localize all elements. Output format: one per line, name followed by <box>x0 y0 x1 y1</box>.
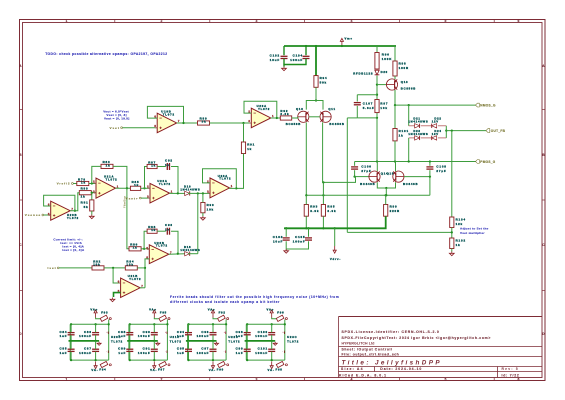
wire U20A feedback <box>244 101 277 118</box>
wire filter1 left <box>69 324 71 360</box>
junction rail B R93 <box>305 194 307 196</box>
svg-text:C95: C95 <box>177 346 185 350</box>
svg-text:KiCad E.D.A. 8.0.1: KiCad E.D.A. 8.0.1 <box>339 373 387 377</box>
svg-text:10k: 10k <box>93 263 100 267</box>
svg-text:10uF: 10uF <box>273 240 283 244</box>
wire filter4 VA+ drop <box>272 318 276 319</box>
ground under R102 <box>449 252 454 256</box>
op-amp U20B <box>48 201 74 220</box>
wire filter2 left <box>128 324 130 360</box>
resistor R86 <box>129 243 141 251</box>
svg-text:3.9k: 3.9k <box>327 209 336 213</box>
svg-text:C96: C96 <box>201 330 209 334</box>
svg-text:C84: C84 <box>59 330 67 334</box>
junction PMOS row b <box>394 160 396 162</box>
resistor R93 <box>304 205 319 217</box>
wire C108 top lead <box>429 162 431 166</box>
resistor R83 <box>101 160 113 168</box>
wire R104 to R102 <box>451 228 453 239</box>
svg-text:Sheet: /Output Control/: Sheet: /Output Control/ <box>342 347 393 351</box>
wire filter2 c1 leads <box>129 324 131 332</box>
wire U20B out up <box>70 193 79 211</box>
svg-text:Id: 7/22: Id: 7/22 <box>502 373 520 377</box>
op-amp U21B <box>118 274 144 297</box>
svg-text:VA-: VA- <box>268 368 275 372</box>
svg-text:Q15: Q15 <box>387 172 395 176</box>
wire D20 node to PMOS row <box>376 118 378 162</box>
svg-text:NMOS_G: NMOS_G <box>480 103 496 107</box>
label F97 <box>158 368 165 372</box>
svg-text:R94: R94 <box>320 76 328 80</box>
power flag VA+ filter2 <box>149 308 157 318</box>
svg-text:Q11: Q11 <box>328 107 335 111</box>
svg-text:-: - <box>106 350 107 353</box>
wire filter2 VA+ drop <box>154 318 158 319</box>
capacitor C105 <box>293 235 312 243</box>
svg-text:3: 3 <box>256 19 259 23</box>
lead diode row1 <box>409 125 447 127</box>
svg-text:Iset: Iset <box>48 266 57 270</box>
wire Vset to U19B <box>123 127 158 129</box>
svg-text:1k: 1k <box>134 183 139 187</box>
hierarchical label OUT_FB <box>486 129 506 133</box>
svg-text:C86: C86 <box>84 330 92 334</box>
junction rail Vdrv <box>334 227 336 229</box>
power flag Vm+ <box>340 37 353 47</box>
svg-text:3: 3 <box>147 194 149 198</box>
label U20B <box>67 213 79 220</box>
svg-text:C88: C88 <box>118 330 126 334</box>
ferrite bead F97 <box>159 361 170 367</box>
wire U21A out <box>116 187 131 189</box>
svg-text:U23C: U23C <box>287 335 297 339</box>
junction filter4 m1 <box>246 340 248 342</box>
svg-text:2.2k: 2.2k <box>280 112 289 116</box>
svg-text:C103: C103 <box>273 235 283 239</box>
resistor R89 <box>198 117 210 126</box>
wire R90 top <box>202 193 204 202</box>
svg-text:F95: F95 <box>160 310 167 314</box>
svg-text:1uF: 1uF <box>60 351 68 355</box>
wire C102 bottom lead <box>283 59 285 65</box>
svg-text:A: A <box>542 64 545 68</box>
junction R90 node <box>202 192 204 194</box>
wire R81 gnd <box>91 211 93 215</box>
global label Iset <box>48 266 60 270</box>
wire U22B in+ path <box>145 259 149 288</box>
wire C93 to out <box>171 231 178 254</box>
svg-text:TL072: TL072 <box>228 339 240 343</box>
wire R91 down to U23A out <box>236 154 243 189</box>
global label Vset+ <box>126 196 142 200</box>
svg-text:SPDX-FileCopyrightText: 2024 I: SPDX-FileCopyrightText: 2024 Igor Brkic … <box>342 336 492 340</box>
svg-text:Vset+: Vset+ <box>126 196 139 200</box>
resistor R96 <box>375 53 392 70</box>
wire C107 top bridge <box>357 94 377 96</box>
capacitor C100 <box>255 330 275 338</box>
wire C105 top lead <box>308 228 310 237</box>
wire filter1 c3 leads <box>70 341 72 349</box>
wire filter2 mid <box>127 340 158 342</box>
wire diode node down <box>197 193 199 253</box>
wire filter3 bead down <box>225 320 227 325</box>
svg-text:PMOS_G: PMOS_G <box>480 160 495 164</box>
wire R84 right <box>137 267 145 269</box>
junction diode left PMOS <box>408 160 410 162</box>
zener diode D20 <box>375 70 380 75</box>
wire filter4 c3 leads <box>246 341 248 349</box>
junction filter2 t2 <box>153 323 155 325</box>
label D22 <box>432 117 442 124</box>
junction U22B out <box>177 253 179 255</box>
wire filter3 left <box>187 324 189 360</box>
junction rail R95 <box>322 227 324 229</box>
svg-text:C102: C102 <box>270 54 280 58</box>
wire filter3 c1 bot <box>188 335 190 341</box>
wire filter1 c2 bot <box>95 335 97 341</box>
junction filter2 b1 <box>129 359 131 361</box>
svg-text:TL072: TL072 <box>106 177 118 181</box>
wire C107 bottom lead <box>356 106 358 118</box>
wire filter4 bead down <box>284 320 286 325</box>
junction Q13 base tap <box>376 83 378 85</box>
wire filter3 mid <box>186 340 217 342</box>
global label Vset <box>110 126 123 130</box>
junction R104 R102 <box>451 231 453 233</box>
lead diode row2 <box>409 137 447 139</box>
op-amp U21A <box>93 174 119 198</box>
svg-text:TL072: TL072 <box>156 244 168 248</box>
power flag VA+ filter4 <box>267 308 275 318</box>
wire Vref2 to R79 <box>73 183 77 185</box>
svg-text:6: 6 <box>518 19 521 23</box>
svg-text:F93: F93 <box>101 310 108 314</box>
power flag VA- filter2 <box>150 362 157 373</box>
wire filter2 c4 bot <box>153 352 155 361</box>
wire filter2 c3 bot <box>129 352 131 361</box>
svg-text:F97: F97 <box>158 368 165 372</box>
global label Vref/2 <box>57 182 74 186</box>
wire rail to R98 <box>394 46 396 61</box>
svg-text:C89: C89 <box>118 346 126 350</box>
svg-text:1: 1 <box>66 377 69 381</box>
wire C102 top lead <box>283 46 285 55</box>
junction filter3 t2 <box>212 323 214 325</box>
power flag VA- filter4 <box>268 362 275 373</box>
wire NMOS row <box>395 104 476 106</box>
junction PMOS row c <box>429 160 431 162</box>
wire R102 to gnd <box>451 249 453 252</box>
svg-text:1uF: 1uF <box>118 334 126 338</box>
svg-text:C: C <box>542 243 545 247</box>
capacitor C97 <box>197 346 217 354</box>
wire C106 node to Q14 base <box>355 176 369 178</box>
wire diode col left bottom <box>408 138 410 162</box>
wire R87 to C92 <box>157 166 166 168</box>
svg-text:B: B <box>19 153 22 157</box>
svg-text:100R: 100R <box>399 66 409 70</box>
junction filter2 m2 <box>153 340 155 342</box>
junction rail B mid <box>385 194 387 196</box>
svg-text:1n: 1n <box>165 227 170 231</box>
wire R98 to Q13 emitter <box>394 76 396 79</box>
wire R101 to PMOS row <box>394 141 396 162</box>
svg-text:1: 1 <box>171 189 173 193</box>
capacitor C102 <box>270 54 288 62</box>
junction filter3 b1 <box>187 359 189 361</box>
wire emitter rail Q10 Q11 <box>306 101 323 110</box>
wire emitters Q14 Q15 <box>377 182 395 188</box>
svg-text:3: 3 <box>93 190 95 194</box>
svg-text:12V: 12V <box>432 120 439 124</box>
svg-text:TL072: TL072 <box>111 339 123 343</box>
wire filter2 bottom <box>129 359 168 361</box>
resistor R98 <box>393 61 409 76</box>
svg-text:-: - <box>165 350 166 353</box>
junction filter1 b1 <box>70 359 72 361</box>
svg-text:1uF: 1uF <box>236 351 244 355</box>
comment Vout formulas <box>103 109 129 120</box>
transistor Q14 <box>369 171 388 182</box>
svg-text:VA+: VA+ <box>149 308 157 312</box>
comment TODO note <box>45 52 167 56</box>
ferrite bead F93 <box>100 310 111 321</box>
svg-text:B: B <box>542 153 545 157</box>
svg-text:R80: R80 <box>81 187 89 191</box>
junction U19B out <box>182 122 184 124</box>
power flag VA+ filter3 <box>208 308 216 318</box>
capacitor C89 <box>118 346 133 354</box>
op-amp U22B <box>146 241 172 264</box>
junction rail A <box>322 181 324 183</box>
junction filter2 t1 <box>129 323 131 325</box>
svg-text:R93: R93 <box>310 205 318 209</box>
wire filter3 c2 leads <box>212 324 214 332</box>
hierarchical label NMOS_G <box>476 103 496 107</box>
junction filter4 b1 <box>246 359 248 361</box>
wire filter4 left <box>245 324 247 360</box>
svg-text:C91: C91 <box>143 346 151 350</box>
label D19 <box>180 184 200 191</box>
wire filter2 c2 bot <box>153 335 155 341</box>
svg-text:C99: C99 <box>236 346 244 350</box>
svg-text:C104: C104 <box>293 54 303 58</box>
wire filter1 c3 bot <box>70 352 72 361</box>
svg-text:100nF: 100nF <box>197 351 210 355</box>
op-amp power unit U23C <box>282 331 299 354</box>
wire filter4 c4 bot <box>271 352 273 361</box>
svg-text:F92: F92 <box>219 310 226 314</box>
svg-text:Vset: Vset <box>110 126 120 130</box>
svg-text:100nF: 100nF <box>255 351 268 355</box>
wire filter4 c3 bot <box>246 352 248 361</box>
svg-text:27pF: 27pF <box>361 169 371 173</box>
junction emitters mid <box>385 187 387 189</box>
capacitor C107 <box>354 102 375 110</box>
junction C107 R97 top <box>376 94 378 96</box>
wire Q10 collector down <box>305 122 307 195</box>
svg-text:R104: R104 <box>456 217 466 221</box>
junction C106 bottom <box>353 175 355 177</box>
wire R81 top <box>91 193 93 200</box>
wire Q11 collector down <box>322 122 325 182</box>
wire U20B feedback <box>44 195 75 210</box>
svg-text:4: 4 <box>351 377 354 381</box>
label Q11 value <box>329 122 344 126</box>
svg-text:1k: 1k <box>81 181 86 185</box>
resistor R91 <box>241 142 255 154</box>
junction NMOS row a <box>394 104 396 106</box>
junction filter2 b2 <box>153 359 155 361</box>
junction filter3 b2 <box>212 359 214 361</box>
wire R95 link <box>322 182 324 204</box>
ferrite bead F96 <box>276 310 287 321</box>
wire filter3 top <box>188 323 227 325</box>
wire emitters down <box>385 188 387 195</box>
wire Q14 up <box>376 162 378 172</box>
wire left rail down <box>346 118 348 232</box>
capacitor C84 <box>59 330 74 338</box>
wire filter1 mid <box>69 340 100 342</box>
wire R92 to Q10 base <box>292 117 298 118</box>
wire bottom node to left rail <box>347 117 357 119</box>
wire R96 to D20 <box>376 69 378 70</box>
junction OUT_FB node <box>445 129 447 131</box>
ground under U21B <box>110 298 115 302</box>
svg-text:220R: 220R <box>390 209 400 213</box>
svg-text:C93: C93 <box>165 223 173 227</box>
wire filter1 c4 bot <box>95 352 97 361</box>
svg-text:100nF: 100nF <box>290 58 303 62</box>
wire rail B corner up <box>429 177 431 196</box>
svg-text:F94: F94 <box>99 368 106 372</box>
wire C106 top lead <box>354 162 356 166</box>
ground under R81 <box>89 215 94 219</box>
wire rail A <box>323 177 355 183</box>
junction rail B R95 <box>322 194 324 196</box>
wire R99 bottom thick <box>284 216 386 228</box>
junction C107 R97 bottom <box>376 117 378 119</box>
svg-text:100nF: 100nF <box>138 351 151 355</box>
wire filter1 right <box>108 324 110 360</box>
svg-text:1uF: 1uF <box>236 334 244 338</box>
ferrite bead F90 <box>218 361 229 367</box>
junction top rail R94 tap <box>315 45 317 47</box>
junction rail C103 <box>285 227 287 229</box>
svg-text:BC846B: BC846B <box>360 182 375 186</box>
wire diode col right <box>445 126 447 138</box>
capacitor C93 <box>165 223 173 235</box>
svg-text:3: 3 <box>207 189 209 193</box>
wire filter3 VA+ drop <box>213 318 217 319</box>
wire C103 C105 bottoms <box>286 241 308 249</box>
svg-text:TL072: TL072 <box>159 182 171 186</box>
junction NMOS row b <box>408 104 410 106</box>
svg-text:VA+: VA+ <box>267 308 275 312</box>
diode D18 <box>185 252 190 256</box>
capacitor C95 <box>177 346 192 354</box>
junction R86 right <box>143 248 145 250</box>
wire C103 top lead <box>285 228 287 237</box>
ferrite bead F98 <box>276 361 287 367</box>
svg-text:BC846B: BC846B <box>403 182 418 186</box>
resistor R87 <box>147 160 157 168</box>
junction filter3 m2 <box>212 340 214 342</box>
wire diode col left top <box>408 105 410 126</box>
resistor R94 <box>314 76 328 88</box>
wire filter1 VA+ drop <box>96 318 100 319</box>
svg-text:2: 2 <box>161 377 164 381</box>
junction filter3 top right <box>225 323 227 325</box>
svg-text:R99: R99 <box>390 205 398 209</box>
capacitor C106 <box>351 165 372 173</box>
wire R85 to U22A <box>141 187 150 189</box>
wire filter3 bottom <box>188 359 227 361</box>
wire U21B in- path <box>113 268 121 283</box>
wire filter4 c4 leads <box>271 341 273 349</box>
svg-text:27pF: 27pF <box>436 169 446 173</box>
svg-text:1N4148WS: 1N4148WS <box>408 120 428 124</box>
resistor R84 <box>125 259 137 270</box>
svg-text:Date: 2024-04-10: Date: 2024-04-10 <box>380 367 422 371</box>
wire C106 bottom lead <box>354 170 356 176</box>
svg-text:R97: R97 <box>380 102 388 106</box>
svg-text:Title: JellyfishDPP: Title: JellyfishDPP <box>342 359 442 366</box>
resistor R97 <box>375 100 388 113</box>
svg-text:C108: C108 <box>436 165 446 169</box>
wire R80 to U21A <box>91 192 96 194</box>
svg-text:3: 3 <box>248 119 250 123</box>
junction filter1 m1 <box>70 340 72 342</box>
svg-text:R90: R90 <box>207 203 215 207</box>
wire PMOS row <box>355 161 476 163</box>
wire sense tap <box>347 231 452 233</box>
diode D24 <box>432 136 437 140</box>
svg-text:100nF: 100nF <box>197 334 210 338</box>
wire Q13 base <box>377 84 386 86</box>
svg-text:VA+: VA+ <box>208 308 216 312</box>
svg-text:D: D <box>19 332 22 336</box>
svg-text:C87: C87 <box>84 346 92 350</box>
wire filter4 c2 leads <box>271 324 273 332</box>
svg-text:Q10: Q10 <box>296 107 304 111</box>
wire filter4 bottom <box>246 359 284 361</box>
svg-text:C85: C85 <box>59 346 67 350</box>
svg-text:10k: 10k <box>126 263 133 267</box>
svg-text:VA-: VA- <box>150 368 157 372</box>
svg-text:HYPERGLITCH Ltd: HYPERGLITCH Ltd <box>342 342 375 346</box>
svg-text:100nF: 100nF <box>79 334 92 338</box>
wire filter1 bottom <box>70 359 109 361</box>
capacitor C98 <box>236 330 251 338</box>
svg-text:Iout = [0, 4]A: Iout = [0, 4]A <box>62 248 85 252</box>
junction filter1 b2 <box>94 359 96 361</box>
wire U21B out <box>140 287 145 289</box>
svg-text:F96: F96 <box>277 310 284 314</box>
svg-text:Adjust to Set the: Adjust to Set the <box>460 226 489 230</box>
wire D18 out <box>188 253 198 255</box>
wire filter2 top <box>129 323 168 325</box>
wire U21A feedback <box>113 166 127 188</box>
transistor Q10 <box>296 107 309 122</box>
svg-text:3: 3 <box>256 377 259 381</box>
junction OUT_FB drop <box>451 129 453 131</box>
comment adjust multiplier <box>460 226 489 235</box>
wire filter2 right <box>166 324 168 360</box>
wire filter2 c3 leads <box>129 341 131 349</box>
wire R89 to node A <box>210 122 252 124</box>
junction filter3 m1 <box>187 340 189 342</box>
